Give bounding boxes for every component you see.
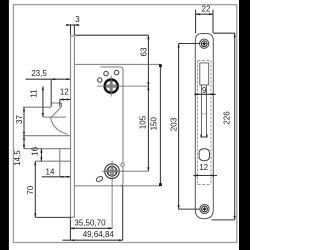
svg-text:12: 12 (60, 88, 69, 97)
small oval below-left of cylinder (95, 176, 103, 183)
bottom screw hole outer (200, 204, 209, 213)
dim 14,5 line (23, 136, 25, 149)
dim 3 line (66, 24, 80, 26)
arrows for side view dims (23, 24, 162, 241)
arrows 16 (40, 149, 42, 153)
arrows 70 (34, 161, 36, 165)
deadbolt face (59, 149, 61, 161)
case back ext down (122, 186, 124, 240)
deadbolt face ext down to 14 dim (59, 161, 61, 177)
cylinder crosshair horizontal (102, 170, 148, 172)
drawing frame border (13, 5, 236, 243)
latch bolt front (200, 63, 209, 85)
follower square plus (107, 81, 116, 90)
faceplate edge-on front line (70, 36, 72, 217)
follower crosshair horizontal (97, 85, 148, 87)
right black bar (239, 0, 250, 250)
left black bar (0, 0, 9, 250)
faceplate edge-on back line (73, 36, 75, 217)
faceplate top cap (70, 35, 75, 37)
dim 226 line (234, 33, 236, 220)
latch tail bottom cap (201, 134, 207, 137)
deadbolt top edge (ext to 16 dim) (24, 148, 70, 150)
arrows 35,50,70 (70, 227, 74, 229)
svg-text:226: 226 (222, 111, 231, 125)
dim 35,50,70 line (70, 227, 112, 229)
faceplate plate outline (195, 34, 213, 219)
latch bevel diagonal (51, 106, 62, 118)
dim 12 line (latch projection) (60, 99, 71, 101)
arrow chain bottom at cylinder (147, 167, 149, 171)
arrow 3 left (67, 24, 71, 26)
latch top edge (43, 116, 66, 118)
dim 37 line (23, 107, 25, 136)
mortise cutout dashed top (198, 60, 211, 62)
svg-text:203: 203 (169, 117, 178, 131)
latch tail right (205, 85, 207, 137)
arrows 14 (60, 176, 64, 178)
svg-text:63: 63 (139, 47, 148, 56)
screw hole A (104, 71, 108, 75)
dim 226 bottom ext (212, 219, 235, 221)
dim 203 line (178, 44, 180, 210)
svg-text:11: 11 (30, 89, 39, 98)
svg-text:23,5: 23,5 (31, 69, 47, 78)
svg-text:105: 105 (139, 115, 148, 129)
svg-text:14: 14 (46, 167, 55, 176)
screw hole C (98, 78, 102, 82)
latch bottom edge (ext to 37/14,5 dims) (23, 135, 70, 137)
svg-text:37: 37 (15, 115, 24, 124)
dim 22 ext right (212, 10, 214, 34)
dim 203 bottom ext (179, 208, 200, 210)
svg-text:70: 70 (26, 185, 35, 194)
dim 23,5 ext (50, 79, 52, 107)
follower hub ring (105, 80, 118, 93)
latch tail mid dash (201, 113, 207, 115)
svg-text:150: 150 (150, 116, 159, 130)
lock case back edge lower (122, 167, 124, 184)
dim 12 line front (193, 175, 217, 177)
latch tail left (201, 85, 203, 137)
arrow 3 right (74, 24, 78, 26)
svg-text:9: 9 (202, 86, 207, 95)
follower crosshair vertical (110, 76, 112, 97)
arrow 63 top (147, 35, 149, 39)
arrows 11 (42, 86, 44, 90)
dim 226 top ext (213, 32, 234, 34)
mortise cutout dashed left (197, 61, 199, 185)
lock case inner top edge with corner (101, 67, 124, 70)
arrows 49,64,84 (70, 239, 74, 241)
lock case bottom corner (120, 183, 123, 186)
svg-text:16: 16 (31, 146, 40, 155)
dim 70 line (34, 161, 36, 217)
dim 9 arrows (196, 93, 200, 95)
dim 226 (212, 33, 235, 220)
screw hole B (114, 70, 118, 74)
arrows 14,5 (23, 136, 25, 140)
arrows 23,5 (51, 78, 55, 80)
svg-text:35,50,70: 35,50,70 (74, 218, 106, 227)
dim 70 bottom ext (35, 216, 70, 218)
lock case outer top edge (75, 63, 160, 65)
cylinder crosshair vertical / backset ext (111, 161, 113, 229)
svg-text:12: 12 (199, 163, 208, 172)
arrows chain at follower (147, 82, 149, 86)
dim 22 ext left (195, 10, 197, 34)
faceplate bottom cap (70, 216, 75, 218)
deadbolt bottom edge (ext to 70 dim) (35, 160, 70, 162)
dots dim 150 (159, 64, 162, 67)
faceplate top ext to 63 chain (75, 34, 148, 36)
lock case bottom edge (75, 185, 160, 187)
oval cylinder hole front (199, 149, 209, 161)
chain dim line 63/105 (147, 35, 149, 171)
faceplate front ext down (69, 217, 71, 240)
svg-text:14,5: 14,5 (13, 150, 22, 166)
latch upper ext line y107 (23, 106, 51, 108)
dim 22 (196, 10, 213, 34)
lock case back edge upper (122, 70, 124, 163)
mortise cutout dashed right (210, 61, 212, 185)
top screw hole outer (200, 39, 209, 48)
dim 22 line (196, 13, 213, 15)
cylinder hole outer (105, 164, 120, 179)
latch tip vertical (61, 103, 63, 106)
latch bevel arc (50, 117, 67, 134)
notch half-circle on case back (121, 163, 124, 166)
svg-text:49,64,84: 49,64,84 (83, 230, 115, 239)
dim 14 line (42, 176, 71, 178)
svg-text:3: 3 (75, 15, 80, 24)
mortise cutout dashed bottom (198, 183, 211, 185)
arrows 37 (23, 107, 25, 111)
dim 12 front arrows (196, 174, 200, 176)
dim 3 ext lines up (70, 24, 72, 35)
dim 16 line (40, 149, 42, 162)
dim 11 line (42, 86, 44, 117)
dim 49,64,84 line (63, 239, 123, 241)
dim 9 line (194, 93, 216, 95)
latch bevel flat top (51, 102, 61, 104)
svg-text:22: 22 (202, 4, 211, 13)
bottom screw hole torx (202, 206, 208, 212)
dim 150 line (159, 64, 161, 185)
cylinder hole inner hatched (105, 164, 119, 179)
dim 12 ext (59, 100, 61, 107)
top screw hole torx (201, 41, 207, 47)
dim 203 (179, 44, 200, 210)
dim 203 top ext (179, 43, 200, 45)
arrows 12 (60, 98, 64, 100)
dim 23,5 line (25, 78, 70, 80)
